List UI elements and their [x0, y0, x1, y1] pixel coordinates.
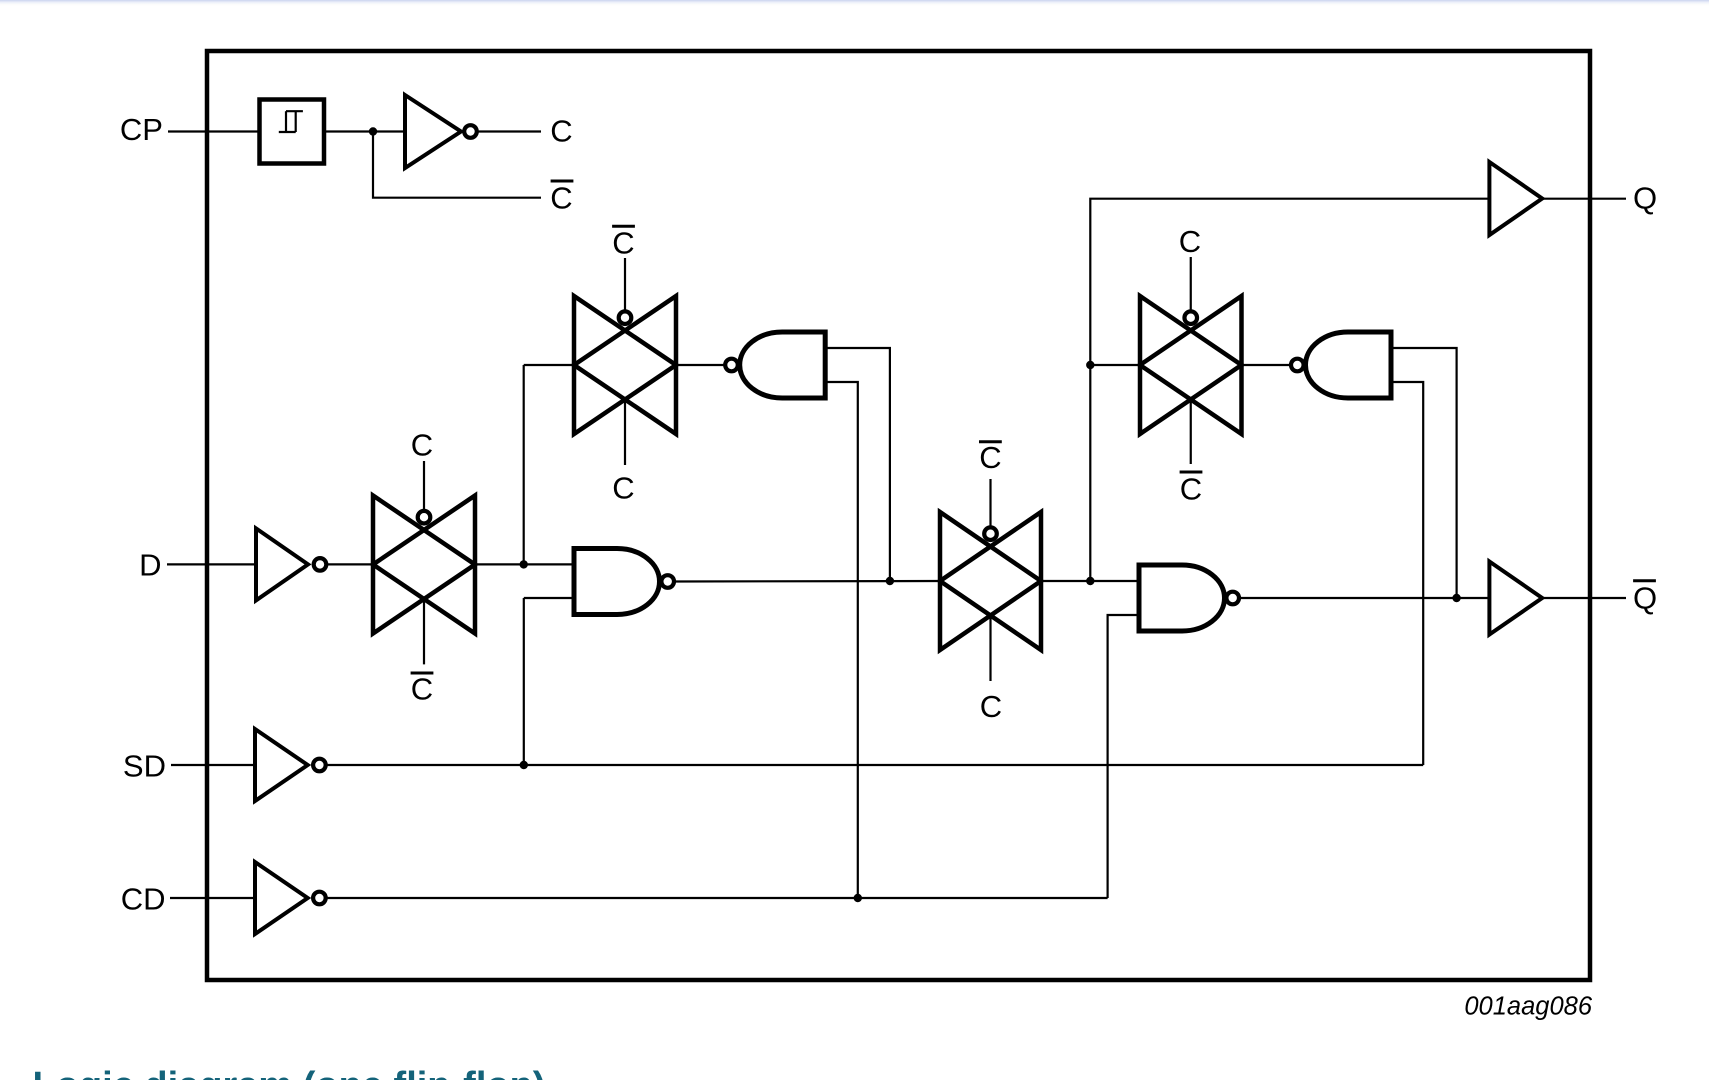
caption heading	[33, 1065, 546, 1080]
junction	[1452, 594, 1460, 602]
wire	[327, 563, 373, 565]
wire	[475, 563, 574, 565]
wire	[167, 563, 256, 565]
wire	[825, 348, 890, 581]
wire	[524, 364, 574, 366]
label C-bar	[550, 181, 573, 216]
label C-bar	[411, 671, 434, 706]
transmission gate TG2	[574, 296, 676, 434]
label C-bar	[1180, 472, 1203, 507]
wire	[989, 616, 991, 682]
wire	[423, 461, 425, 510]
svg-text:SD: SD	[123, 748, 166, 783]
wire	[1542, 597, 1626, 599]
svg-text:C: C	[550, 114, 572, 149]
wire	[1108, 615, 1139, 898]
transmission gate TG3	[940, 512, 1041, 650]
junction	[854, 894, 862, 902]
label C	[411, 428, 433, 463]
wire	[1190, 257, 1192, 311]
svg-text:D: D	[139, 548, 161, 583]
NAND gate U4	[574, 549, 674, 615]
wire	[989, 479, 991, 527]
label C	[550, 114, 572, 149]
wire	[1239, 597, 1489, 599]
wire	[171, 764, 255, 766]
buffer U10	[1489, 562, 1542, 635]
drawing number	[1464, 993, 1592, 1021]
Schmitt trigger U1	[260, 100, 325, 164]
wire	[523, 598, 525, 765]
svg-text:C: C	[979, 440, 1001, 475]
wire	[1391, 382, 1423, 765]
buffer U11	[1489, 162, 1542, 235]
junction	[520, 560, 528, 568]
label C-bar	[612, 225, 635, 260]
inverter U9	[255, 862, 326, 934]
junction	[369, 127, 377, 135]
wire	[170, 897, 255, 899]
junction	[520, 761, 528, 769]
svg-text:C: C	[1179, 224, 1201, 259]
wire	[327, 897, 1108, 899]
svg-text:C: C	[411, 428, 433, 463]
svg-text:C: C	[612, 471, 634, 506]
svg-text:Q: Q	[1633, 581, 1657, 616]
wire	[327, 764, 1424, 766]
wire	[1190, 400, 1192, 465]
svg-text:Q: Q	[1633, 181, 1657, 216]
NAND gate U7	[1291, 332, 1391, 398]
wire	[423, 599, 425, 664]
inverter U3	[256, 528, 326, 600]
junction	[1086, 361, 1094, 369]
wire	[324, 130, 405, 132]
svg-text:C: C	[612, 225, 634, 260]
svg-text:CP: CP	[120, 112, 163, 147]
inverter U8	[255, 729, 326, 801]
label Q-bar	[1633, 581, 1657, 616]
label CD	[121, 882, 166, 917]
svg-text:C: C	[980, 689, 1002, 724]
wire	[825, 382, 858, 898]
wire	[624, 258, 626, 311]
label C	[1179, 224, 1201, 259]
transmission gate TG1	[373, 496, 475, 634]
wire	[524, 597, 574, 599]
wire	[674, 580, 940, 583]
label D	[139, 548, 161, 583]
wire	[1041, 580, 1139, 582]
junction	[886, 577, 894, 585]
svg-text:C: C	[1180, 472, 1202, 507]
label C-bar	[979, 440, 1002, 475]
label CP	[120, 112, 163, 147]
wire	[1391, 348, 1457, 598]
wire	[1242, 364, 1292, 366]
wire	[624, 400, 626, 466]
wire	[1542, 198, 1626, 200]
inverter U2	[405, 95, 477, 168]
wire	[1090, 199, 1489, 581]
wire	[1090, 364, 1140, 366]
label SD	[123, 748, 166, 783]
label C	[612, 471, 634, 506]
svg-text:Logic diagram (one flip-flop): Logic diagram (one flip-flop)	[33, 1065, 546, 1080]
NAND gate U6	[1139, 565, 1239, 631]
svg-text:C: C	[411, 671, 433, 706]
label Q	[1633, 181, 1657, 216]
wire	[373, 132, 541, 198]
wire	[676, 364, 725, 366]
label C	[980, 689, 1002, 724]
transmission gate TG4	[1140, 296, 1242, 434]
svg-text:C: C	[550, 181, 572, 216]
border frame	[207, 51, 1590, 980]
NAND gate U5	[725, 332, 825, 398]
wire	[478, 130, 541, 132]
wire	[523, 365, 525, 564]
svg-text:001aag086: 001aag086	[1464, 993, 1592, 1021]
wire	[168, 130, 259, 132]
junction	[1086, 577, 1094, 585]
svg-text:CD: CD	[121, 882, 166, 917]
